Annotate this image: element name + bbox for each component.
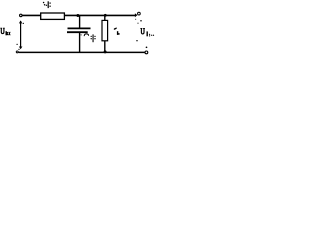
output arrow on top wire xyxy=(135,13,138,17)
bottom wire xyxy=(19,51,145,53)
Uвх arrow shaft (between input terminals) xyxy=(20,21,22,48)
load top lead xyxy=(104,15,106,20)
terminal output bottom-right xyxy=(145,51,148,54)
label U (of Uн.ср) xyxy=(140,29,145,34)
speck below Uвх xyxy=(16,44,17,45)
Uвх arrowhead up xyxy=(19,20,22,23)
terminal output top-right xyxy=(138,12,141,15)
label Rф above resistor xyxy=(43,1,51,8)
label Rн right of load resistor xyxy=(114,27,120,35)
label U (of Uвх) xyxy=(0,28,5,33)
terminal input bottom-left xyxy=(16,51,18,53)
resistor R_f (series filter resistor) xyxy=(41,13,65,19)
capacitor bottom lead xyxy=(79,33,81,53)
label вх subscript xyxy=(6,31,11,35)
Uвх arrowhead down xyxy=(19,47,23,50)
capacitor C_f bottom plate xyxy=(67,31,88,33)
label н.ср subscript xyxy=(147,31,155,36)
label Сф right of capacitor xyxy=(81,34,96,42)
resistor R_n (load) xyxy=(102,20,108,40)
specks near output terminal xyxy=(135,19,136,20)
node B junction dot (top of load branch) xyxy=(104,14,107,17)
speck near top arrowhead xyxy=(23,23,24,24)
node C junction dot (bottom of load branch) xyxy=(104,50,107,53)
load bottom lead xyxy=(104,41,106,53)
top wire xyxy=(22,14,135,16)
node A junction dot (top of capacitor branch) xyxy=(76,14,79,17)
speck near bottom arrowhead xyxy=(18,49,19,50)
capacitor C_f top plate xyxy=(68,27,91,29)
capacitor top lead xyxy=(79,16,81,29)
terminal input top-left xyxy=(20,14,23,17)
speck above output terminal xyxy=(146,46,148,48)
